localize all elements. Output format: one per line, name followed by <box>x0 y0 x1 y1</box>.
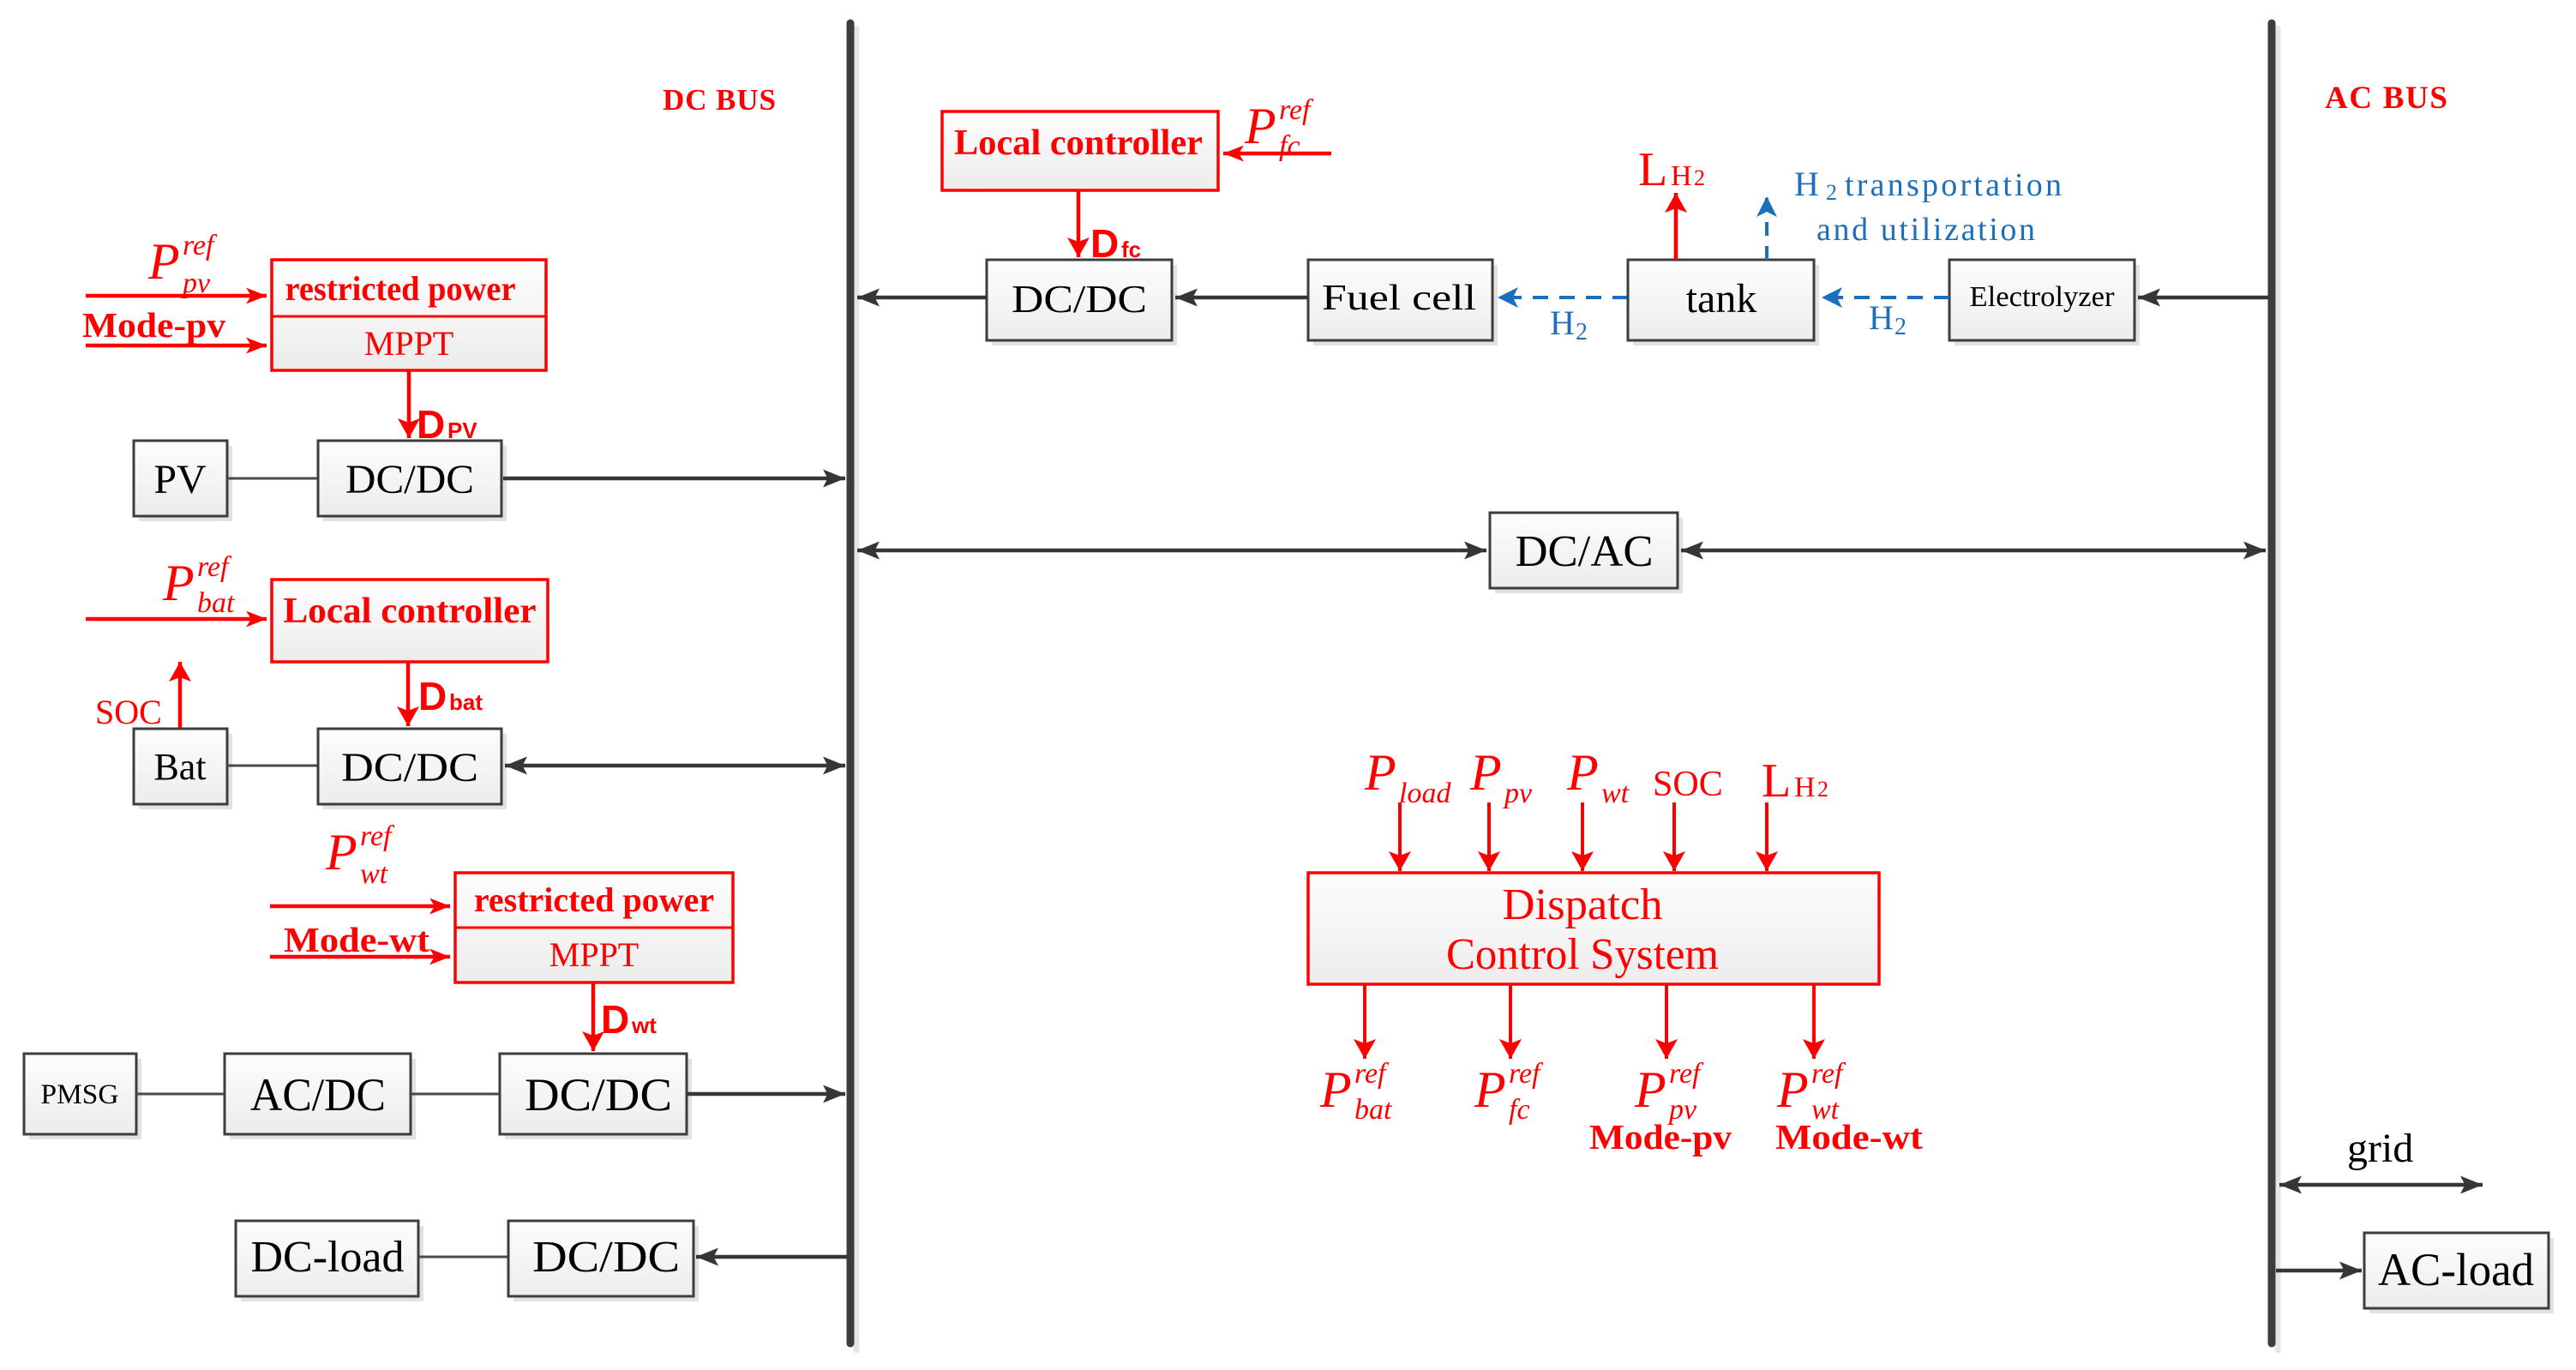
PV block <box>134 441 232 521</box>
svg-text:MPPT: MPPT <box>549 935 639 974</box>
wire Pwt input <box>1581 802 1584 871</box>
svg-text:P: P <box>1474 1061 1506 1118</box>
svg-text:fc: fc <box>1509 1094 1530 1126</box>
svg-text:restricted power: restricted power <box>474 880 714 919</box>
svg-text:Mode-wt: Mode-wt <box>1775 1117 1923 1157</box>
svg-text:P: P <box>1776 1061 1809 1118</box>
svg-text:Fuel cell: Fuel cell <box>1322 279 1476 318</box>
label SOC <box>95 693 162 731</box>
svg-text:H: H <box>1794 165 1819 203</box>
label Pwt-ref <box>325 820 395 890</box>
wire LH2 input <box>1765 802 1768 871</box>
wire Pbat-ref output <box>1363 984 1366 1059</box>
svg-text:grid: grid <box>2347 1126 2413 1171</box>
label Ppv <box>1469 744 1533 809</box>
svg-text:2: 2 <box>1817 777 1828 802</box>
svg-text:ref: ref <box>1354 1058 1390 1090</box>
DC bus shadow <box>854 28 860 1350</box>
wire Pfc-ref input <box>1223 152 1331 156</box>
label DC BUS <box>663 83 776 117</box>
label Pbat-ref (output) <box>1319 1058 1393 1126</box>
label Mode-wt <box>284 920 429 959</box>
svg-text:P: P <box>162 555 195 611</box>
svg-text:DC-load: DC-load <box>251 1233 405 1282</box>
WT local controller box (restricted power / MPPT) <box>455 873 733 982</box>
svg-text:restricted power: restricted power <box>285 269 516 308</box>
wire SOC input <box>1672 802 1676 871</box>
svg-text:DC/DC: DC/DC <box>345 457 474 502</box>
svg-text:H: H <box>1550 303 1575 342</box>
svg-text:wt: wt <box>360 858 389 890</box>
wire AC bus to AC-load <box>2276 1269 2362 1273</box>
svg-text:Mode-pv: Mode-pv <box>82 305 226 345</box>
wire Mode-wt input <box>270 955 450 959</box>
DC/AC converter <box>1490 513 1683 593</box>
wire AC/DC to DC/DC (wind) <box>411 1093 500 1096</box>
svg-text:D: D <box>418 674 447 718</box>
DC/DC converter (wind) <box>500 1054 692 1139</box>
PMSG block <box>24 1054 141 1139</box>
wire Fuel cell to DC/DC (fc) <box>1175 296 1308 300</box>
svg-text:DC BUS: DC BUS <box>663 83 776 117</box>
Fuel cell block <box>1308 260 1498 346</box>
wire PMSG to AC/DC <box>136 1093 225 1096</box>
label grid <box>2347 1126 2413 1171</box>
label Pwt <box>1566 744 1630 809</box>
svg-text:L: L <box>1762 754 1791 808</box>
svg-text:2: 2 <box>1694 165 1705 190</box>
wire Ppv-ref input <box>86 294 267 298</box>
Local controller box (fuel cell) <box>942 111 1218 190</box>
DC/DC converter (PV) <box>318 441 507 521</box>
svg-text:Dispatch: Dispatch <box>1503 880 1663 929</box>
svg-text:P: P <box>1634 1061 1666 1118</box>
svg-text:DC/AC: DC/AC <box>1516 527 1654 576</box>
label LH2 <box>1638 143 1705 196</box>
wire DC bus to DC/DC (DC load) <box>696 1255 849 1259</box>
svg-text:ref: ref <box>360 820 395 852</box>
label H2 (tank to fuel cell) <box>1550 303 1588 346</box>
label AC BUS <box>2325 81 2447 116</box>
svg-text:bat: bat <box>1354 1094 1393 1126</box>
svg-text:bat: bat <box>197 587 236 619</box>
wire DC-load to DC/DC <box>418 1256 508 1259</box>
DC/DC converter (DC load) <box>508 1221 699 1301</box>
svg-text:Bat: Bat <box>153 746 206 788</box>
label Ppv-ref (output) <box>1634 1058 1704 1126</box>
svg-text:L: L <box>1638 143 1667 196</box>
svg-text:load: load <box>1399 778 1451 809</box>
svg-text:PMSG: PMSG <box>41 1079 119 1110</box>
svg-text:D: D <box>417 402 445 447</box>
svg-text:AC-load: AC-load <box>2378 1244 2534 1295</box>
label Mode-pv <box>82 305 226 345</box>
svg-text:DC/DC: DC/DC <box>341 745 478 790</box>
svg-text:2: 2 <box>1894 314 1906 340</box>
wire Pwt-ref input <box>270 904 450 909</box>
label H2 transportation and utilization <box>1794 165 2062 248</box>
svg-text:pv: pv <box>1503 778 1533 809</box>
wire Pload input <box>1398 802 1402 871</box>
wire DC/DC (fc) to DC bus <box>857 296 987 300</box>
Electrolyzer block <box>1949 260 2140 346</box>
label Pload <box>1364 744 1451 809</box>
svg-text:2: 2 <box>1826 180 1837 205</box>
label H2 (electrolyzer to tank) <box>1869 298 1906 340</box>
wire Ppv input <box>1487 802 1491 871</box>
wire Pwt-ref output <box>1812 984 1816 1059</box>
wire H2 transportation (tank up, dashed) <box>1765 196 1768 260</box>
wire DC/DC (wind) to DC bus <box>687 1092 845 1097</box>
label Mode-pv (output) <box>1589 1117 1732 1157</box>
DC bus <box>847 23 855 1343</box>
wire DC bus to DC/AC, bidirectional <box>857 549 1486 553</box>
svg-text:PV: PV <box>153 457 207 502</box>
label Dwt <box>601 997 657 1042</box>
wire DC/DC (Bat) to DC bus, bidirectional <box>505 764 845 768</box>
svg-text:MPPT: MPPT <box>364 324 454 363</box>
wire DC/DC (PV) to DC bus <box>503 477 845 481</box>
Dispatch Control System block <box>1308 873 1879 984</box>
svg-text:SOC: SOC <box>1653 765 1723 804</box>
svg-text:P: P <box>1244 98 1276 154</box>
label Dbat <box>418 674 483 718</box>
svg-text:DC/DC: DC/DC <box>1012 277 1147 321</box>
svg-text:H: H <box>1794 772 1816 803</box>
wire Dfc (controller to DC/DC) <box>1077 190 1081 257</box>
label Ppv-ref <box>147 230 218 299</box>
DC/DC converter (fuel cell) <box>987 260 1177 346</box>
wire Ppv-ref output <box>1665 984 1668 1059</box>
label Dfc <box>1090 221 1141 266</box>
svg-text:H: H <box>1869 298 1894 337</box>
svg-text:AC/DC: AC/DC <box>250 1069 386 1121</box>
svg-text:D: D <box>601 997 629 1042</box>
DC-load block <box>236 1221 423 1301</box>
svg-text:Mode-wt: Mode-wt <box>284 920 429 959</box>
label Pwt-ref (output) <box>1776 1058 1846 1126</box>
wire SOC (Bat up to controller) <box>178 662 183 728</box>
svg-text:ref: ref <box>197 551 232 583</box>
wire Dwt (controller to DC/DC) <box>591 982 596 1051</box>
Local controller box (battery) <box>272 580 548 662</box>
wire DC/AC to AC bus, bidirectional <box>1681 549 2266 553</box>
svg-text:transportation: transportation <box>1845 167 2062 203</box>
svg-text:P: P <box>147 233 180 290</box>
svg-text:ref: ref <box>1509 1058 1544 1090</box>
label Pbat-ref <box>162 551 236 619</box>
wire AC bus to Electrolyzer <box>2138 296 2268 300</box>
svg-text:Mode-pv: Mode-pv <box>1589 1117 1732 1157</box>
wire Mode-pv input <box>86 344 267 348</box>
svg-text:ref: ref <box>1279 94 1314 126</box>
wire Pfc-ref output <box>1509 984 1512 1059</box>
svg-text:Local controller: Local controller <box>284 592 537 631</box>
svg-text:bat: bat <box>449 689 483 715</box>
AC bus <box>2268 23 2276 1343</box>
svg-text:H: H <box>1671 160 1692 192</box>
wire Pbat-ref input <box>86 617 267 622</box>
svg-text:wt: wt <box>1601 778 1630 809</box>
svg-text:SOC: SOC <box>95 693 162 731</box>
svg-text:P: P <box>1566 744 1599 801</box>
wire grid, bidirectional <box>2279 1183 2483 1187</box>
label LH2 (dispatch input) <box>1762 754 1828 808</box>
svg-text:DC/DC: DC/DC <box>525 1069 672 1121</box>
svg-text:Control System: Control System <box>1446 930 1719 979</box>
wire Bat to DC/DC <box>227 765 318 767</box>
svg-text:P: P <box>1319 1061 1352 1118</box>
PV local controller box (restricted power / MPPT) <box>272 260 546 370</box>
svg-text:ref: ref <box>1811 1058 1846 1090</box>
svg-text:P: P <box>1364 744 1396 801</box>
label SOC (dispatch input) <box>1653 765 1723 804</box>
svg-text:PV: PV <box>447 418 477 443</box>
svg-text:Local controller: Local controller <box>954 123 1203 163</box>
wire LH2 (tank up) <box>1674 193 1678 260</box>
label Dpv <box>417 402 477 447</box>
label Pfc-ref <box>1244 94 1314 162</box>
svg-text:AC BUS: AC BUS <box>2325 81 2447 116</box>
label Pfc-ref (output) <box>1474 1058 1544 1126</box>
svg-text:tank: tank <box>1686 276 1757 321</box>
AC bus shadow <box>2275 28 2281 1350</box>
svg-text:P: P <box>1469 744 1502 801</box>
wire Electrolyzer to tank (dashed) <box>1822 296 1949 299</box>
svg-text:P: P <box>325 824 357 880</box>
DC/DC converter (Bat) <box>318 729 507 809</box>
svg-text:and utilization: and utilization <box>1816 212 2035 248</box>
wire PV to DC/DC <box>227 478 318 480</box>
svg-text:ref: ref <box>1669 1058 1704 1090</box>
svg-text:wt: wt <box>631 1012 657 1038</box>
svg-text:Electrolyzer: Electrolyzer <box>1970 281 2116 313</box>
wire Dbat (controller to DC/DC) <box>406 662 411 726</box>
Bat block <box>134 729 232 809</box>
tank block <box>1628 260 1819 346</box>
svg-text:DC/DC: DC/DC <box>532 1233 680 1282</box>
svg-text:2: 2 <box>1576 319 1588 346</box>
wire H2 tank to Fuel cell (dashed) <box>1498 296 1628 299</box>
AC-load block <box>2364 1233 2554 1313</box>
svg-text:ref: ref <box>183 230 218 261</box>
wire Dpv (controller to DC/DC) <box>407 370 411 438</box>
svg-text:pv: pv <box>181 267 211 299</box>
label Mode-wt (output) <box>1775 1117 1923 1157</box>
svg-text:fc: fc <box>1279 130 1300 162</box>
AC/DC converter (wind) <box>225 1054 416 1139</box>
